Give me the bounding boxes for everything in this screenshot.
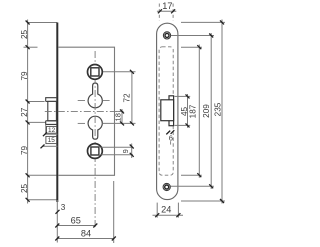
top follower ring xyxy=(88,65,103,80)
lock case rectangle xyxy=(58,47,114,175)
chain stub y=122.4 to latch bottom xyxy=(28,121,46,123)
9 tick top xyxy=(130,145,134,149)
svg-text:6: 6 xyxy=(169,133,173,142)
top screw outer xyxy=(163,32,170,39)
3 leader tick xyxy=(56,210,60,214)
72 tick bottom xyxy=(130,121,134,125)
bottom screw inner ring xyxy=(165,185,169,189)
square top extension (9 dim) xyxy=(102,146,134,148)
dashed case extension above x=159.3 xyxy=(158,4,160,21)
bottom follower square xyxy=(91,147,99,155)
tick y=199.8 xyxy=(26,198,30,202)
15 tick xyxy=(41,145,45,149)
svg-text:24: 24 xyxy=(161,204,171,214)
latch side: bolt head xyxy=(161,100,174,121)
lower keyhole left centerline xyxy=(78,122,85,124)
45 tick bottom xyxy=(186,123,190,127)
tick y=122.4 xyxy=(26,120,30,124)
72 tick top xyxy=(130,70,134,74)
24 ext line left xyxy=(156,203,158,218)
svg-text:27: 27 xyxy=(20,107,29,117)
9 tick bottom xyxy=(130,153,134,157)
chain stub y=22.5 to faceplate top xyxy=(28,22,58,24)
latch front view: body xyxy=(48,101,57,120)
svg-text:72: 72 xyxy=(122,93,131,103)
45 tick top xyxy=(186,94,190,98)
tick y=22.5 xyxy=(26,21,30,25)
24 tick left xyxy=(155,213,159,217)
chain stub y=47.2 xyxy=(24,46,38,48)
svg-text:3: 3 xyxy=(61,203,66,212)
ext plate top to 235 line xyxy=(181,21,225,23)
svg-text:25: 25 xyxy=(20,30,29,40)
latch front view: top cap xyxy=(46,98,57,102)
dashed case rect xyxy=(159,47,173,175)
ext top screw to 209 line xyxy=(171,35,214,37)
235 dim line xyxy=(221,20,223,204)
svg-text:9: 9 xyxy=(121,149,130,153)
24 tick right xyxy=(176,213,180,217)
box label 12 xyxy=(47,126,57,133)
upper keyhole side centerlines xyxy=(78,100,110,102)
svg-text:209: 209 xyxy=(202,104,211,118)
svg-text:17: 17 xyxy=(162,1,172,11)
box label 15 xyxy=(46,136,57,143)
svg-text:79: 79 xyxy=(20,71,29,81)
ext latch bottom to 45 line xyxy=(175,124,191,126)
ext plate bottom to 235 line xyxy=(181,200,225,202)
case right bottom extension line xyxy=(113,181,115,243)
45 dim line xyxy=(187,94,189,128)
24 dim line xyxy=(153,214,184,216)
centerline end dash at 18 line xyxy=(116,110,123,112)
svg-text:15: 15 xyxy=(48,137,56,144)
extension from cap to 12-line xyxy=(45,124,47,133)
svg-text:187: 187 xyxy=(189,104,198,118)
209 tick bottom xyxy=(209,184,213,188)
faceplate bottom extension line xyxy=(56,200,58,243)
latch side: tall slot xyxy=(169,96,174,126)
17 tick left xyxy=(158,9,162,13)
12 tick xyxy=(43,132,47,136)
svg-text:45: 45 xyxy=(180,107,189,117)
ext case top to 187 line xyxy=(181,46,202,48)
84 tick right xyxy=(112,237,116,241)
tick y=47.2 xyxy=(26,45,30,49)
chain stub y=175.3 to case bottom xyxy=(28,174,58,176)
horizontal centerline xyxy=(45,110,124,112)
faceplate edge bar (front view) xyxy=(56,23,58,203)
209 tick top xyxy=(209,34,213,38)
187 tick top xyxy=(197,45,201,49)
65 tick left xyxy=(55,224,59,228)
lower keyhole xyxy=(88,116,102,139)
17 tick right xyxy=(171,9,175,13)
svg-text:65: 65 xyxy=(71,216,81,226)
65 dim line xyxy=(57,225,95,227)
chain stub y=199.8 to faceplate bottom xyxy=(28,199,58,201)
chain stub y=101.5 to latch top xyxy=(28,101,45,103)
svg-text:84: 84 xyxy=(81,229,91,239)
follower center extension to 72 line xyxy=(103,71,136,73)
65 tick right xyxy=(93,224,97,228)
17 dim line xyxy=(157,10,176,12)
bottom follower ring xyxy=(88,144,103,159)
24 ext line right xyxy=(177,203,179,218)
209 dim line xyxy=(210,33,212,189)
15 dim line xyxy=(42,145,57,147)
18 tick bottom xyxy=(120,121,124,125)
tick y=101.5 xyxy=(26,100,30,104)
187 dim line xyxy=(198,45,200,178)
square bottom extension (9 dim) xyxy=(102,154,134,156)
svg-text:12: 12 xyxy=(48,127,56,134)
svg-text:18: 18 xyxy=(113,113,122,121)
6 leader stub xyxy=(170,141,172,144)
84 dim line xyxy=(57,238,114,240)
72 dim line xyxy=(131,72,133,124)
vertical centerline xyxy=(94,51,96,227)
top screw inner ring xyxy=(165,33,169,37)
84 tick left xyxy=(55,237,59,241)
upper keyhole xyxy=(88,83,102,108)
top follower square xyxy=(91,68,99,76)
tick y=175.3 xyxy=(26,173,30,177)
9 dim line xyxy=(131,144,133,159)
svg-text:235: 235 xyxy=(213,102,222,116)
ext bottom screw to 209 line xyxy=(171,185,214,187)
235 tick top xyxy=(220,20,224,24)
18 dim line xyxy=(121,109,123,124)
faceplate stadium xyxy=(157,23,178,199)
6 tick marks xyxy=(166,130,174,134)
latch front view: bottom cap xyxy=(46,121,57,125)
dashed case extension above x=173.1 xyxy=(172,4,174,21)
235 tick bottom xyxy=(220,199,224,203)
ext case bottom to 187 line xyxy=(181,174,202,176)
svg-text:25: 25 xyxy=(20,184,29,194)
svg-text:79: 79 xyxy=(20,146,29,156)
12 dim line xyxy=(45,133,58,135)
left dimension chain line xyxy=(27,20,29,204)
18 tick top xyxy=(120,109,124,113)
ext latch top to 45 line xyxy=(175,95,191,97)
187 tick bottom xyxy=(197,173,201,177)
lower keyhole extension to 72/18 lines xyxy=(102,122,135,124)
bottom screw outer xyxy=(163,183,170,190)
